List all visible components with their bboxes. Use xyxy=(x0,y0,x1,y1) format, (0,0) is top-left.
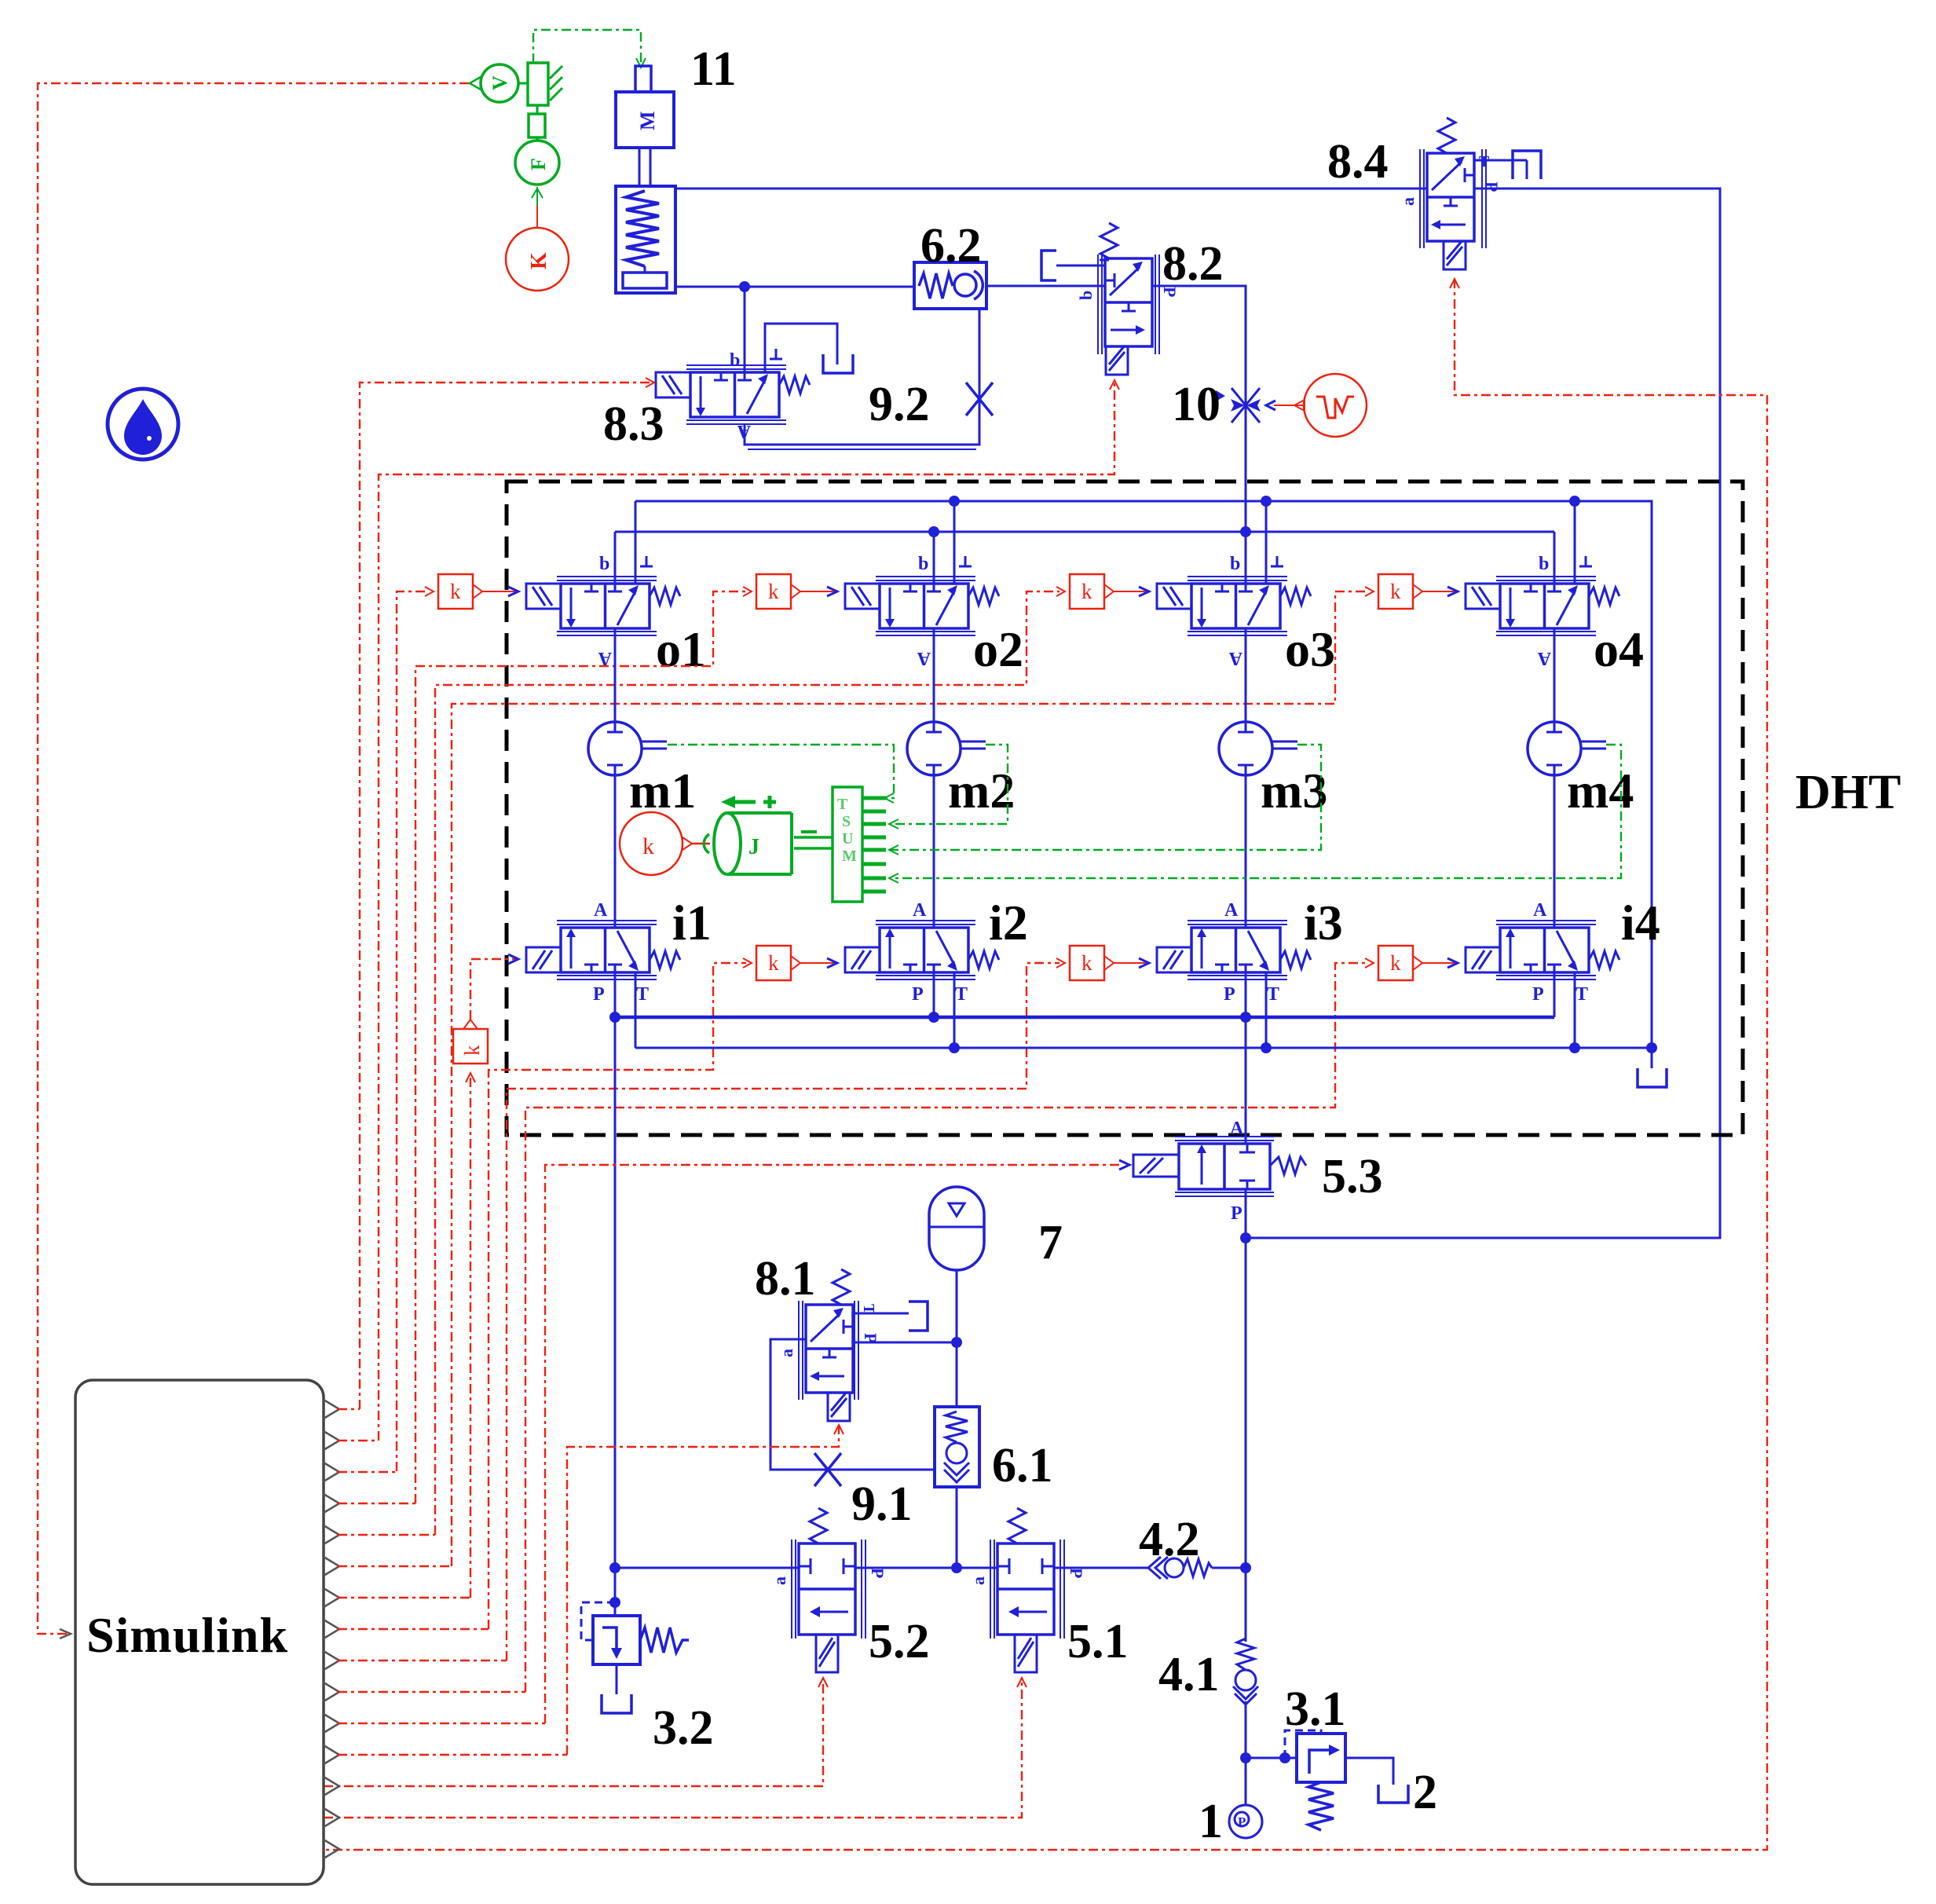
svg-text:A: A xyxy=(913,900,927,921)
wire: supply rail for o-valve b ports xyxy=(615,531,1554,533)
red wire: Simulink line14 riser to 5.1 solenoid xyxy=(324,1678,1027,1818)
red wire: Simulink line8 riser to kbox i2 xyxy=(489,958,752,1629)
check valve 4.1 (vertical, on pump riser) xyxy=(1233,1639,1258,1704)
gain kbox i1 (rotated, fed from Simulink line7) xyxy=(453,1020,488,1598)
svg-text:5.3: 5.3 xyxy=(1322,1150,1383,1203)
svg-text:J: J xyxy=(748,835,759,859)
red wire: Simulink line3 to kbox o1 xyxy=(397,587,434,1471)
wire: o4 T port riser xyxy=(1574,501,1576,584)
inertia J (green rotary load) xyxy=(704,796,833,874)
wire: 4.1 down to pump junction xyxy=(1245,1701,1247,1805)
red wire: kbox i2 to i2 solenoid xyxy=(800,958,837,968)
wire: T rail collecting i-valve T ports xyxy=(635,1047,1652,1049)
node: junction below 5.3 with line to 8.4 xyxy=(1240,1232,1251,1243)
wire: i4 P drop xyxy=(1554,972,1556,1017)
svg-text:i4: i4 xyxy=(1621,895,1660,950)
svg-text:A: A xyxy=(1228,648,1242,668)
svg-text:8.3: 8.3 xyxy=(603,397,664,451)
svg-text:8.2: 8.2 xyxy=(1162,237,1224,291)
gain kbox o1 xyxy=(438,574,482,609)
valve o3 xyxy=(1157,554,1311,668)
valve o1 (3/2 outlet valve) xyxy=(526,554,680,668)
Simulink interface block xyxy=(75,1380,324,1884)
svg-text:3.2: 3.2 xyxy=(653,1701,714,1755)
svg-text:Simulink: Simulink xyxy=(86,1607,288,1663)
orifice 9.2 (fixed restrictor X) xyxy=(966,383,993,416)
relief valve 3.1 xyxy=(1285,1730,1393,1830)
tank inside DHT (return reservoir) xyxy=(1638,1048,1667,1087)
node: supply junctions xyxy=(609,1562,620,1573)
green feedback: m1 shaft to summation pin1 xyxy=(668,745,894,803)
valve 8.1 (2/2 pilot valve, vertical) xyxy=(777,1269,909,1421)
svg-text:b: b xyxy=(1539,554,1549,574)
tank for 8.3 xyxy=(823,354,853,373)
gain kbox i3 xyxy=(1070,946,1114,980)
gain kbox i4 xyxy=(1378,946,1422,980)
valve i3 xyxy=(1157,900,1311,1005)
svg-text:A: A xyxy=(1224,900,1239,921)
svg-text:i1: i1 xyxy=(672,895,712,950)
svg-text:6.2: 6.2 xyxy=(920,219,982,273)
svg-text:T: T xyxy=(837,796,848,813)
svg-text:T: T xyxy=(1576,984,1588,1005)
tank for 3.2 xyxy=(602,1694,631,1713)
svg-text:F: F xyxy=(527,158,550,170)
svg-text:a: a xyxy=(968,1576,988,1585)
svg-text:A: A xyxy=(1533,900,1547,921)
signal generator (red waveform source) feeding flow control 10 xyxy=(1266,374,1367,437)
node: T rail junctions xyxy=(949,1042,960,1053)
svg-text:m1: m1 xyxy=(629,763,696,818)
svg-text:8.1: 8.1 xyxy=(755,1252,816,1305)
source K (red constant source circle) xyxy=(506,187,569,291)
svg-text:o3: o3 xyxy=(1285,621,1335,677)
svg-text:m4: m4 xyxy=(1567,763,1634,818)
sensor F (force actuator, green) xyxy=(515,141,559,185)
torque summation block (green) xyxy=(833,787,886,902)
green feedback: m3 shaft to summation pin5 xyxy=(889,745,1321,855)
svg-text:P: P xyxy=(912,984,924,1005)
red wire: kbox i1 output up and right to i1 solenoid xyxy=(470,954,518,1020)
valve i2 xyxy=(845,900,999,1005)
wire: supply junction down to check valve 4.1 xyxy=(1245,1568,1247,1642)
red wire: kbox o2 to o2 solenoid xyxy=(800,587,837,596)
gain kbox o3 xyxy=(1070,574,1114,609)
tank for 8.1 (bracket open left) xyxy=(909,1302,928,1331)
wire: o4 A to motor m4 xyxy=(1554,628,1556,722)
wire: valve 8.4 port P right and down the page to supply junction below 5.3 xyxy=(1246,189,1720,1238)
piston link (green) between mass and force sensor xyxy=(529,105,545,141)
svg-text:U: U xyxy=(842,830,853,848)
hydraulic motor m1 xyxy=(588,722,667,775)
wire: o1 T port riser xyxy=(635,501,637,584)
svg-text:P: P xyxy=(1482,181,1502,192)
svg-text:a: a xyxy=(777,1349,796,1357)
hydraulic motor m4 xyxy=(1528,722,1606,775)
node: junction on line 11-6.2 above valve 8.3 xyxy=(739,281,750,292)
svg-text:8.4: 8.4 xyxy=(1327,135,1389,189)
wire: 8.1 P port to accumulator line xyxy=(853,1342,957,1344)
svg-text:7: 7 xyxy=(1038,1216,1063,1269)
svg-text:b: b xyxy=(599,554,609,574)
svg-text:4.2: 4.2 xyxy=(1139,1513,1200,1566)
Simulink output ports (chevrons) and connection stubs xyxy=(324,1400,339,1858)
svg-text:1: 1 xyxy=(1199,1795,1223,1848)
svg-text:9.2: 9.2 xyxy=(869,378,930,431)
valve 5.1 (2/2 solenoid valve, vertical) xyxy=(968,1508,1086,1672)
svg-text:V: V xyxy=(489,75,511,90)
red wire: Simulink line6 riser to kbox o4 xyxy=(452,587,1374,1566)
svg-text:P: P xyxy=(593,984,605,1005)
svg-text:m3: m3 xyxy=(1261,763,1327,818)
wire: red signal line from velocity sensor V to Simulink input (left edge) xyxy=(38,83,469,1639)
sensor V (speed sensor, green) xyxy=(470,64,518,102)
wire: junction down to valve 8.3 port b xyxy=(744,287,746,372)
relief valve 3.2 (low pressure) xyxy=(581,1602,689,1694)
svg-text:P: P xyxy=(1238,1814,1246,1829)
red wire: kbox i4 to i4 solenoid xyxy=(1422,958,1458,968)
check valve 4.2 (horizontal) xyxy=(1148,1557,1212,1579)
tank for 8.4 (bracket open down) xyxy=(1513,151,1541,179)
wire: o1 A to motor m1 xyxy=(614,628,617,722)
svg-text:a: a xyxy=(770,1576,789,1585)
wire: i2 T drop xyxy=(953,972,956,1048)
svg-text:b: b xyxy=(1076,291,1096,300)
valve i4 xyxy=(1466,900,1619,1005)
svg-text:o4: o4 xyxy=(1594,621,1644,677)
wire: o2 A to motor m2 xyxy=(933,628,935,722)
wire: o4 b port riser xyxy=(1554,532,1556,584)
gain kbox i2 xyxy=(756,946,800,980)
svg-text:S: S xyxy=(842,813,851,830)
wire: tank return rail (top) collecting o-valve T ports xyxy=(635,501,1652,1048)
wire: i1 T drop xyxy=(635,972,637,1048)
wire: valve 8.3 tank port bridge to tank xyxy=(765,324,837,372)
svg-text:DHT: DHT xyxy=(1795,766,1901,819)
red wire: Simulink line5 riser to kbox o3 xyxy=(435,587,1065,1535)
wire: o2 b port riser xyxy=(933,532,935,584)
svg-text:2: 2 xyxy=(1413,1766,1437,1819)
source k circle (red) driving inertia J xyxy=(620,812,710,875)
node: P rail junctions xyxy=(609,1012,620,1023)
valve 8.2 (2/2 pilot valve, vertical) xyxy=(1056,223,1180,375)
svg-text:o2: o2 xyxy=(973,621,1023,677)
red wire: Simulink line10 riser to kbox i4 xyxy=(525,958,1374,1692)
wire: i2 P drop xyxy=(933,972,935,1017)
svg-text:T: T xyxy=(955,984,968,1005)
svg-text:T: T xyxy=(1479,153,1490,170)
svg-text:b: b xyxy=(730,350,740,371)
valve 5.2 (2/2 solenoid valve, vertical) xyxy=(770,1508,887,1672)
wire: supply branch down to relief valve 3.2 xyxy=(614,1568,617,1616)
svg-text:m2: m2 xyxy=(948,763,1015,818)
svg-text:P: P xyxy=(1067,1568,1086,1578)
node: rail2 junctions xyxy=(928,526,939,537)
node: pilot tap for 3.2 xyxy=(609,1597,620,1608)
wire: i3 T drop xyxy=(1265,972,1268,1048)
wire: accumulator line down to check valve 6.1 xyxy=(956,1342,958,1407)
green control link from mass to pilot cylinder 11 xyxy=(533,30,646,68)
svg-text:i3: i3 xyxy=(1304,895,1343,950)
svg-text:6.1: 6.1 xyxy=(992,1439,1053,1492)
svg-text:A: A xyxy=(1537,648,1551,668)
valve 8.3 (3/2 proportional valve) xyxy=(656,365,810,424)
svg-text:M: M xyxy=(636,111,659,130)
svg-text:b: b xyxy=(918,554,928,574)
svg-text:a: a xyxy=(1398,197,1418,206)
svg-text:P: P xyxy=(1532,984,1544,1005)
flow control valve 10 (variable orifice on supply line) xyxy=(1216,388,1261,423)
wire: junction to relief valve 3.1 xyxy=(1246,1757,1297,1759)
mass block (green) with wall hatching xyxy=(518,63,562,105)
wire: main supply line (pump gallery) xyxy=(615,1567,1246,1569)
hydraulic motor m3 xyxy=(1219,722,1297,775)
wire: i3 P drop continuing to valve 5.3 xyxy=(1245,972,1247,1144)
wire: i4 T drop xyxy=(1574,972,1576,1048)
wire: m1 to i1 A xyxy=(614,775,617,928)
wire: o3 A to motor m3 xyxy=(1245,628,1247,722)
svg-text:5.1: 5.1 xyxy=(1067,1615,1129,1668)
gain kbox o2 xyxy=(756,574,800,609)
DHT dashed boundary box xyxy=(507,481,1743,1135)
red wire: kbox i3 to i3 solenoid xyxy=(1114,958,1149,968)
svg-text:i2: i2 xyxy=(989,895,1028,950)
svg-text:A: A xyxy=(1230,1119,1244,1139)
svg-text:P: P xyxy=(868,1568,887,1578)
pump 1 (pressure source) xyxy=(1229,1805,1262,1838)
svg-text:M: M xyxy=(842,848,857,865)
orifice 9.1 (fixed restrictor X) xyxy=(814,1453,841,1486)
red wire: kbox o1 to o1 solenoid xyxy=(482,587,518,596)
valve 8.4 (2/2 pilot valve, vertical) xyxy=(1398,118,1527,269)
tank for 8.2 (bracket open right) xyxy=(1041,251,1056,280)
svg-text:o1: o1 xyxy=(656,621,706,677)
gain kbox o4 xyxy=(1378,574,1422,609)
svg-text:T: T xyxy=(636,984,649,1005)
red control line: riser to 8.2 solenoid from Simulink line2 xyxy=(379,380,1119,1441)
wire: valve 8.2 port P right then down into DHT supply xyxy=(1152,286,1246,584)
wire: m3 to i3 A xyxy=(1245,775,1247,928)
wire: cylinder 11 bottom port to check valve 6.2 xyxy=(675,286,914,288)
valve o2 xyxy=(845,554,999,668)
node: pump outlet junctions xyxy=(1240,1752,1251,1763)
wire: P rail connecting i-valve P ports xyxy=(615,1016,1554,1020)
node: rail1 junctions xyxy=(949,496,960,507)
svg-text:T: T xyxy=(1267,984,1279,1005)
svg-text:5.2: 5.2 xyxy=(869,1615,930,1668)
wire: 8.1 a port left, down, right through orifice 9.1 xyxy=(770,1339,935,1470)
svg-text:9.1: 9.1 xyxy=(851,1477,913,1531)
pilot-operated spring cylinder 11 (mass + spring actuator) xyxy=(616,66,675,293)
red wire: kbox o4 to o4 solenoid xyxy=(1422,587,1458,596)
valve o4 xyxy=(1466,554,1619,668)
wire: i1 P down through P rail to bottom supply xyxy=(614,972,617,1568)
green feedback: m4 shaft to summation pin7 xyxy=(889,745,1621,883)
svg-text:K: K xyxy=(527,252,551,269)
wire: cylinder 11 top port to valve 8.4 port a xyxy=(675,188,1427,190)
hydraulic motor m2 xyxy=(907,722,986,775)
wire: o2 T port riser xyxy=(953,501,956,584)
red wire: Simulink line13 riser to 5.2 solenoid xyxy=(324,1678,828,1786)
svg-text:11: 11 xyxy=(690,42,737,96)
wire: m2 to i2 A xyxy=(933,775,935,928)
svg-text:A: A xyxy=(917,648,931,668)
wire: o3 T port riser xyxy=(1265,501,1268,584)
svg-text:4.1: 4.1 xyxy=(1158,1648,1220,1701)
droplet icon (hydraulic fluid properties) xyxy=(108,389,178,460)
red wire: Simulink line4 riser to kbox o2 xyxy=(415,587,752,1503)
red wire: Simulink line9 riser to kbox i3 xyxy=(507,958,1065,1661)
red wire: Simulink line11 to valve 5.3 solenoid xyxy=(545,1160,1129,1723)
wire: valve 8.3 port A down, right, up through orifice 9.2 to 6.2 outlet xyxy=(745,309,979,445)
svg-text:3.1: 3.1 xyxy=(1285,1682,1346,1736)
red wire: kbox o3 to o3 solenoid xyxy=(1114,587,1149,596)
svg-text:P: P xyxy=(1231,1203,1242,1224)
valve i1 (3/2 inlet valve) xyxy=(526,900,680,1005)
red control line: to 8.3 solenoid from Simulink line1 xyxy=(360,378,654,1409)
tank 2 (for relief valve 3.1) xyxy=(1378,1785,1408,1803)
red control line: 8.4 solenoid down, right, down right edge to Simulink (bottom) xyxy=(324,279,1767,1850)
wire: valve 5.3 P down to pump line xyxy=(1245,1189,1247,1568)
red wire: Simulink line12 to 8.1 solenoid xyxy=(567,1425,844,1755)
svg-text:10: 10 xyxy=(1172,378,1221,431)
check valve 6.2 (spring-loaded) xyxy=(914,262,986,309)
green feedback: m2 shaft to summation pin3 xyxy=(889,745,1008,829)
svg-text:b: b xyxy=(1230,554,1240,574)
wire: o1 b port riser xyxy=(614,532,617,584)
valve 5.3 (2/2 solenoid valve) xyxy=(1133,1119,1306,1224)
node: junction accumulator / 8.1 xyxy=(951,1337,962,1348)
accumulator 7 xyxy=(929,1187,984,1342)
wire: check valve 6.1 down to supply line xyxy=(956,1487,958,1568)
svg-text:A: A xyxy=(594,900,608,921)
svg-text:k: k xyxy=(460,1045,484,1056)
svg-text:P: P xyxy=(1224,984,1235,1005)
svg-text:k: k xyxy=(642,833,654,859)
wire: m4 to i4 A xyxy=(1554,775,1556,928)
wire: check valve 6.2 to valve 8.2 port b xyxy=(986,285,1105,287)
check valve 6.1 (spring loaded, vertical) xyxy=(935,1407,979,1487)
